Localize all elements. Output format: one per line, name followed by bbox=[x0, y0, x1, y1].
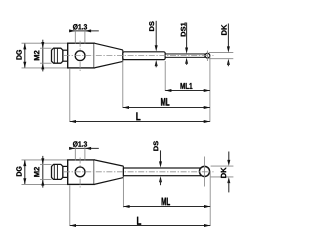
extension lines DG (bottom) bbox=[22, 160, 68, 185]
label Ø1.3 (top) bbox=[73, 24, 87, 30]
label DG (top) bbox=[16, 50, 21, 60]
cone taper (bottom) bbox=[94, 160, 123, 185]
stem (bottom) bbox=[123, 168, 200, 176]
extension line L left (bottom) bbox=[69, 185, 71, 226]
dimension ML (top) bbox=[123, 106, 210, 109]
extension lines M2 (top) bbox=[40, 48, 52, 63]
extension line ML left (top) bbox=[122, 61, 124, 108]
ball tip (top) bbox=[205, 53, 210, 58]
stem DS1 section (top) bbox=[165, 54, 205, 57]
dimension DG (top) bbox=[23, 43, 26, 68]
label ML1 (top) bbox=[181, 83, 193, 89]
extension lines DG (top) bbox=[22, 43, 68, 68]
label ML (bottom) bbox=[162, 198, 170, 206]
ball centerline vertical (top) bbox=[206, 51, 208, 61]
label DK (bottom) bbox=[221, 167, 226, 177]
dimension DK (top) bbox=[227, 24, 230, 67]
label DS (bottom) bbox=[153, 141, 158, 151]
ball centerline vertical (bottom) bbox=[204, 157, 206, 187]
part centerline horizontal (top) bbox=[64, 55, 214, 57]
label DK (top) bbox=[221, 25, 226, 35]
hole centerline (top) bbox=[79, 41, 81, 71]
stylus body (bottom) bbox=[68, 160, 95, 185]
ball extension lines (top) bbox=[209, 53, 233, 59]
neck (top) bbox=[63, 50, 68, 61]
stylus body (top) bbox=[68, 43, 95, 68]
neck (bottom) bbox=[63, 166, 68, 177]
extension lines M2 (bottom) bbox=[40, 164, 52, 179]
dimension termination line right (bottom) bbox=[209, 172, 211, 226]
dimension M2 (top) bbox=[41, 40, 44, 72]
ball extension lines (bottom) bbox=[211, 166, 234, 177]
label M2 (bottom) bbox=[34, 167, 39, 177]
dimension ML1 (top) bbox=[165, 89, 210, 92]
label Ø1.3 (bottom) bbox=[73, 141, 87, 147]
label DG (bottom) bbox=[16, 167, 21, 177]
dimension DK (bottom) bbox=[227, 152, 230, 193]
dimension DS (bottom) bbox=[159, 150, 162, 185]
dimension L (bottom) bbox=[70, 224, 210, 227]
thread M2 (top) bbox=[52, 48, 63, 63]
extension line ML left (bottom) bbox=[122, 177, 124, 208]
extension line L left (top) bbox=[69, 69, 71, 122]
dimension L (top) bbox=[70, 120, 210, 123]
dimension ML (bottom) bbox=[123, 205, 210, 208]
label ML (top) bbox=[161, 98, 169, 106]
dimension M2 (bottom) bbox=[41, 156, 44, 188]
label DS1 (top) bbox=[181, 22, 186, 36]
dimension DS1 (top) bbox=[185, 23, 188, 65]
extension lines Ø1.3 (top) bbox=[75, 30, 85, 44]
stem DS section (top) bbox=[123, 52, 165, 60]
hole centerline (bottom) bbox=[79, 158, 81, 188]
dimension termination line right (top) bbox=[209, 56, 211, 122]
ball tip (bottom) bbox=[199, 166, 209, 176]
extension line ML1 left (top) bbox=[164, 61, 166, 91]
dimension DG (bottom) bbox=[23, 160, 26, 185]
dimension Ø1.3 (top) bbox=[69, 29, 99, 32]
dimension DS (top) bbox=[155, 21, 158, 68]
dimension Ø1.3 (bottom) bbox=[69, 147, 99, 150]
hole in body (bottom) bbox=[75, 167, 85, 177]
label L (bottom) bbox=[137, 217, 141, 225]
label DS (top) bbox=[149, 21, 154, 31]
label L (top) bbox=[136, 112, 140, 120]
hole in body (top) bbox=[75, 51, 85, 61]
extension lines Ø1.3 (bottom) bbox=[75, 147, 85, 160]
thread M2 (bottom) bbox=[52, 164, 63, 179]
part centerline horizontal (bottom) bbox=[64, 171, 214, 173]
label M2 (top) bbox=[34, 51, 39, 61]
cone taper (top) bbox=[94, 43, 123, 68]
